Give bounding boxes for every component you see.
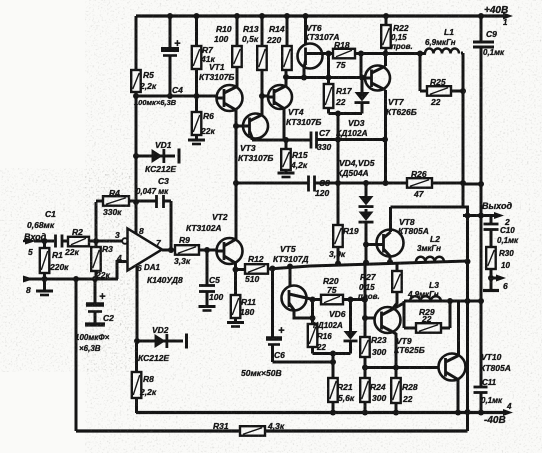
svg-text:0,1мк: 0,1мк: [497, 236, 519, 245]
svg-text:×6,3В: ×6,3В: [79, 344, 101, 353]
svg-text:КТ3102А: КТ3102А: [186, 223, 222, 233]
resistor R30: [486, 247, 514, 278]
resistor R18: [317, 40, 355, 70]
ground symbol R6: [188, 140, 205, 144]
diode VD6: [313, 300, 358, 354]
wire C3 to op-amp output: [164, 201, 172, 250]
resistor R19: [329, 225, 359, 264]
wire y54 R18 to L1: [355, 51, 426, 57]
svg-text:3мкГн: 3мкГн: [417, 244, 441, 253]
svg-text:22к: 22к: [64, 247, 79, 257]
svg-text:КС212Е: КС212Е: [145, 164, 176, 174]
svg-text:R11: R11: [241, 297, 256, 307]
svg-text:C4: C4: [172, 85, 183, 95]
capacitor C2: [75, 279, 114, 353]
svg-text:R15: R15: [292, 150, 308, 160]
svg-text:КТ626Б: КТ626Б: [386, 107, 417, 117]
svg-text:0,15: 0,15: [359, 283, 375, 292]
svg-text:330: 330: [317, 142, 331, 152]
scan noise overlay: [0, 0, 1, 1]
wire link to output node: [463, 207, 468, 216]
pin 1 label: [503, 18, 508, 27]
wire op-amp output: [162, 247, 175, 253]
svg-text:R26: R26: [411, 169, 427, 179]
wire main bus y265: [268, 259, 468, 272]
ground symbol R11: [227, 323, 244, 327]
svg-text:R8: R8: [143, 374, 154, 384]
svg-text:R10: R10: [216, 24, 232, 34]
ground symbol C5: [199, 307, 216, 311]
ground symbol R15: [278, 173, 295, 177]
svg-text:22: 22: [421, 314, 432, 324]
wire VT4 base stub: [262, 95, 269, 98]
wire R22 to VT7 collector: [384, 54, 387, 67]
svg-text:VT1: VT1: [209, 62, 225, 72]
resistor R15: [281, 137, 308, 172]
svg-text:VT10: VT10: [481, 352, 502, 362]
pin 6 label: [137, 263, 142, 273]
svg-text:47: 47: [413, 189, 425, 199]
svg-text:R3: R3: [102, 244, 113, 254]
svg-text:КТ3107Б: КТ3107Б: [199, 72, 234, 82]
svg-text:R23: R23: [371, 335, 387, 345]
svg-text:75: 75: [336, 60, 346, 70]
wire output rail low: [480, 301, 483, 387]
diode VD2: [134, 325, 187, 363]
node terminal 8: [23, 276, 34, 283]
svg-text:220к: 220к: [49, 262, 69, 272]
svg-text:VT4: VT4: [288, 107, 304, 117]
svg-text:0,047 мк: 0,047 мк: [136, 187, 169, 196]
svg-text:L3: L3: [429, 280, 439, 290]
svg-text:Выход: Выход: [482, 201, 512, 211]
svg-text:КТ805А: КТ805А: [398, 226, 429, 236]
svg-text:КТ805А: КТ805А: [480, 363, 511, 373]
svg-text:100мк×6,3В: 100мк×6,3В: [134, 98, 177, 107]
svg-text:R2: R2: [72, 227, 83, 237]
ground bar R30: [483, 278, 499, 291]
wire VT10 base line: [365, 366, 439, 369]
node Выход label: [482, 201, 512, 211]
wire ground bus input: [23, 276, 118, 282]
svg-text:R4: R4: [109, 188, 120, 198]
wire left feedback rail: [75, 279, 78, 431]
transistor VT5: [282, 286, 314, 319]
svg-text:VD1: VD1: [155, 140, 172, 150]
svg-text:75: 75: [327, 285, 337, 295]
wire feedback rail R31: [76, 429, 468, 432]
inductor L1: [425, 27, 459, 54]
svg-text:C6: C6: [274, 350, 285, 360]
wire R2 to op-amp input: [89, 238, 123, 244]
wire VT7 base stub: [361, 76, 365, 79]
wire L1 right down: [460, 53, 466, 207]
wire left rail upper (top rail to R5): [135, 16, 138, 70]
svg-text:R6: R6: [203, 111, 214, 121]
svg-text:22: 22: [402, 394, 413, 404]
resistor R17: [324, 54, 353, 114]
svg-text:4,3к: 4,3к: [267, 421, 285, 431]
svg-text:R14: R14: [269, 24, 285, 34]
svg-text:КТ3107Б: КТ3107Б: [238, 153, 273, 163]
svg-text:R27: R27: [360, 272, 377, 282]
wire VT7 emitter down: [384, 90, 387, 183]
wire VT9 emitter to L3: [392, 301, 404, 310]
svg-text:510: 510: [245, 274, 259, 284]
svg-text:R19: R19: [343, 226, 359, 236]
svg-text:300: 300: [372, 393, 386, 403]
svg-text:22: 22: [430, 97, 441, 107]
capacitor C3: [136, 176, 169, 208]
transistor VT2: [186, 212, 243, 264]
wire VT8 emitter down: [389, 256, 392, 262]
svg-text:120: 120: [315, 188, 329, 198]
svg-text:8: 8: [139, 226, 144, 236]
svg-text:R28: R28: [402, 382, 418, 392]
resistor R16: [308, 297, 332, 354]
capacitor C1: [27, 209, 62, 248]
capacitor C9: [473, 13, 505, 184]
transistor VT8: [377, 217, 429, 257]
svg-text:5: 5: [28, 247, 33, 257]
wire VT6 base down: [303, 68, 306, 79]
svg-text:R30: R30: [499, 249, 514, 258]
wire VT5 base: [289, 267, 292, 287]
svg-text:330к: 330к: [103, 207, 122, 217]
capacitor C7: [311, 128, 331, 152]
transistor VT7: [365, 66, 417, 118]
svg-text:VT2: VT2: [212, 212, 228, 222]
wire C8 to R26: [315, 180, 408, 186]
svg-text:R31: R31: [213, 421, 229, 431]
svg-text:R22: R22: [393, 23, 409, 33]
node Вход label: [24, 232, 47, 242]
svg-text:КД102А: КД102А: [336, 128, 368, 138]
wire VD6 R16 bottoms: [313, 351, 351, 357]
svg-text:КС212Е: КС212Е: [138, 353, 169, 363]
node +40V label: [484, 5, 508, 16]
svg-text:VT5: VT5: [280, 244, 296, 254]
resistor R21: [328, 378, 355, 413]
capacitor C5: [199, 250, 223, 305]
svg-text:КД102А: КД102А: [313, 321, 343, 330]
capacitor C4: [134, 13, 183, 107]
wire op-amp pin6 down to VD2 and R8: [136, 266, 139, 341]
svg-text:+: +: [99, 291, 106, 303]
resistor R11: [231, 270, 256, 322]
svg-text:0,1мк: 0,1мк: [481, 396, 503, 405]
svg-text:R9: R9: [179, 235, 190, 245]
capacitor C6: [241, 269, 285, 379]
wire VT3 collector to C7: [252, 138, 310, 141]
resistor R14: [266, 13, 292, 87]
transistor VT6: [298, 23, 340, 69]
diode VD4: [359, 183, 374, 207]
svg-text:+: +: [174, 38, 181, 50]
svg-text:C9: C9: [486, 29, 497, 39]
svg-text:220: 220: [266, 35, 281, 45]
node output terminal arrow: [481, 212, 504, 219]
node -40V label: [484, 415, 506, 426]
resistor R24: [360, 357, 386, 413]
svg-text:0,1мк: 0,1мк: [483, 48, 505, 57]
svg-text:100: 100: [209, 292, 223, 302]
wire VT8 collector bus y207: [391, 206, 464, 209]
resistor R10: [214, 13, 242, 87]
wire VT2 emitter node: [234, 263, 237, 270]
wire VT8 base stub: [366, 243, 377, 246]
svg-text:8: 8: [26, 285, 31, 295]
svg-text:4,9мкГн: 4,9мкГн: [407, 290, 439, 299]
svg-text:VT7: VT7: [388, 97, 405, 107]
svg-text:R24: R24: [370, 382, 386, 392]
wire left rail (R5 to op-amp pin 8): [133, 92, 139, 233]
svg-text:R13: R13: [243, 24, 259, 34]
wire VT1 base line: [136, 93, 217, 99]
svg-text:L2: L2: [430, 234, 440, 244]
svg-text:3: 3: [115, 230, 120, 240]
wire node down through C7 line to R19: [335, 114, 341, 226]
svg-text:C5: C5: [209, 275, 220, 285]
svg-text:180: 180: [240, 307, 254, 317]
wire R17 VD3 join y113: [329, 111, 363, 117]
svg-text:C10: C10: [500, 226, 515, 235]
svg-text:R1: R1: [52, 250, 63, 260]
wire R9 to VT2 base: [199, 247, 218, 253]
node input terminal Вход: [23, 238, 36, 245]
wire R4 to C3: [129, 200, 156, 203]
wire R18 to bias column: [358, 51, 364, 78]
svg-text:VD2: VD2: [152, 325, 169, 335]
resistor R4: [96, 188, 129, 217]
svg-text:3,9к: 3,9к: [329, 249, 346, 259]
svg-text:10: 10: [501, 261, 510, 270]
wire VT8 collector up: [389, 207, 392, 232]
capacitor C8: [309, 176, 331, 199]
svg-text:DA1: DA1: [144, 263, 161, 272]
svg-text:300: 300: [372, 347, 386, 357]
resistor R23: [360, 263, 387, 358]
transistor VT4: [268, 85, 321, 127]
node VD4 VD5 label: [337, 158, 375, 178]
resistor R9: [174, 235, 199, 266]
pin 8 terminal label: [26, 285, 31, 295]
wire C7 to VT7 emitter line: [317, 137, 389, 143]
wire output low rail y301: [404, 298, 484, 304]
op-amp DA1: [122, 229, 183, 286]
svg-text:VD4,VD5: VD4,VD5: [339, 158, 375, 168]
svg-text:0,15: 0,15: [391, 33, 407, 42]
wire VT10 emitter down: [457, 380, 460, 414]
wire VT4 collector down: [283, 109, 286, 141]
capacitor C11: [474, 378, 504, 413]
svg-text:50мк×50В: 50мк×50В: [241, 368, 282, 378]
pin 2 label: [504, 217, 510, 227]
svg-text:R21: R21: [337, 382, 353, 392]
resistor R3: [91, 241, 113, 280]
wire R26 to output column: [432, 180, 466, 186]
svg-text:0,68мк: 0,68мк: [27, 220, 55, 230]
svg-text:+: +: [278, 325, 285, 337]
svg-text:6: 6: [503, 281, 508, 291]
wire VT1 collector rail: [233, 110, 239, 239]
svg-text:22к: 22к: [200, 126, 215, 136]
svg-text:КТ625Б: КТ625Б: [394, 345, 425, 355]
diode VD1: [136, 140, 179, 174]
svg-text:КТ3107Д: КТ3107Д: [273, 254, 309, 264]
resistor R6: [192, 96, 216, 139]
pin 3 label: [115, 230, 120, 240]
resistor R28: [391, 378, 418, 413]
resistor R1: [40, 241, 69, 279]
pin 4 label: [116, 253, 122, 263]
wire VT10 collector up: [457, 301, 460, 356]
svg-text:-40В: -40В: [484, 415, 506, 426]
pin 4 terminal label: [506, 402, 512, 411]
wire to R21: [330, 354, 336, 379]
wire output feedback column: [465, 216, 471, 432]
svg-text:2,2к: 2,2к: [139, 81, 157, 91]
svg-text:C11: C11: [482, 378, 497, 387]
svg-text:2,2к: 2,2к: [139, 387, 157, 397]
svg-text:L1: L1: [444, 27, 454, 37]
svg-text:C3: C3: [158, 176, 169, 186]
wire VT9 base stub: [365, 317, 375, 320]
svg-text:100мкФ×: 100мкФ×: [75, 333, 110, 342]
diode VD3: [336, 75, 370, 139]
svg-text:C2: C2: [103, 313, 114, 323]
resistor R7: [192, 13, 216, 96]
resistor R25: [420, 53, 463, 107]
resistor R22: [381, 13, 413, 54]
transistor VT9: [375, 307, 425, 355]
diode VD5: [359, 209, 374, 262]
resistor R31: [213, 421, 285, 436]
wire output node to rail: [463, 213, 484, 219]
resistor R5: [131, 70, 157, 92]
resistor R27: [358, 262, 402, 310]
svg-text:6,9мкГн: 6,9мкГн: [425, 38, 456, 47]
wire VT6 emitter to rail: [303, 13, 309, 45]
resistor R20: [313, 276, 368, 304]
svg-text:22: 22: [316, 343, 326, 352]
pin 8 label: [139, 226, 144, 236]
node mid terminal arrow: [488, 275, 506, 282]
transistor VT3: [238, 114, 273, 164]
wire op-amp pin4 to ground bus: [117, 262, 128, 280]
svg-text:4: 4: [506, 402, 512, 411]
svg-text:R25: R25: [430, 77, 446, 87]
svg-text:пров.: пров.: [391, 42, 413, 51]
svg-text:VD6: VD6: [329, 309, 346, 319]
svg-text:R18: R18: [334, 40, 350, 50]
svg-text:пров.: пров.: [358, 292, 380, 301]
wire -40V rail: [136, 409, 513, 416]
resistor R12: [233, 254, 269, 284]
svg-text:C1: C1: [45, 209, 56, 219]
svg-text:R5: R5: [143, 70, 154, 80]
svg-text:4,2к: 4,2к: [290, 160, 308, 170]
wire driver bias bus y77: [286, 75, 362, 81]
wire +40V top rail: [136, 13, 513, 20]
svg-text:R16: R16: [317, 332, 332, 341]
resistor R8: [132, 341, 157, 413]
svg-text:5,6к: 5,6к: [338, 393, 355, 403]
inductor L2: [416, 234, 444, 262]
svg-text:100: 100: [214, 34, 228, 44]
wire VT3 base stub: [236, 125, 244, 128]
transistor VT1: [199, 62, 243, 111]
capacitor C10: [484, 216, 520, 248]
svg-text:1: 1: [503, 18, 508, 27]
svg-text:КТ3107Б: КТ3107Б: [286, 117, 321, 127]
wire C1 to R2: [62, 240, 68, 243]
svg-text:+40В: +40В: [484, 5, 508, 16]
ground symbol input: [36, 279, 53, 295]
svg-text:22: 22: [335, 97, 346, 107]
wire C6 to R21 node: [273, 361, 334, 364]
node VT5 labels: [273, 244, 309, 264]
inductor L3: [407, 280, 441, 301]
svg-text:C7: C7: [319, 128, 331, 138]
wire R22 node to L1: [417, 51, 423, 57]
transistor VT10: [439, 352, 511, 381]
resistor R29: [404, 301, 450, 333]
svg-text:0,5к: 0,5к: [242, 34, 259, 44]
wire R3 node to R4: [95, 202, 98, 241]
svg-text:К140УД8: К140УД8: [147, 275, 183, 285]
wire jog to output rail y184: [463, 181, 484, 187]
pin 6 terminal label: [503, 281, 508, 291]
svg-text:R17: R17: [336, 86, 353, 96]
svg-text:3,3к: 3,3к: [174, 256, 191, 266]
resistor R2: [64, 227, 89, 257]
pin 7 label: [156, 238, 162, 248]
wire output rail mid: [480, 184, 483, 301]
wire input to C1: [34, 238, 54, 244]
svg-text:VT3: VT3: [240, 143, 256, 153]
pin 5 label: [28, 247, 33, 257]
wire bias line to C8: [236, 182, 309, 185]
svg-text:КД504А: КД504А: [337, 168, 369, 178]
resistor R26: [407, 169, 432, 199]
svg-text:VD3: VD3: [348, 118, 365, 128]
resistor R13: [242, 13, 267, 115]
svg-text:R12: R12: [248, 254, 264, 264]
wire VT9 collector to R28: [392, 332, 399, 379]
